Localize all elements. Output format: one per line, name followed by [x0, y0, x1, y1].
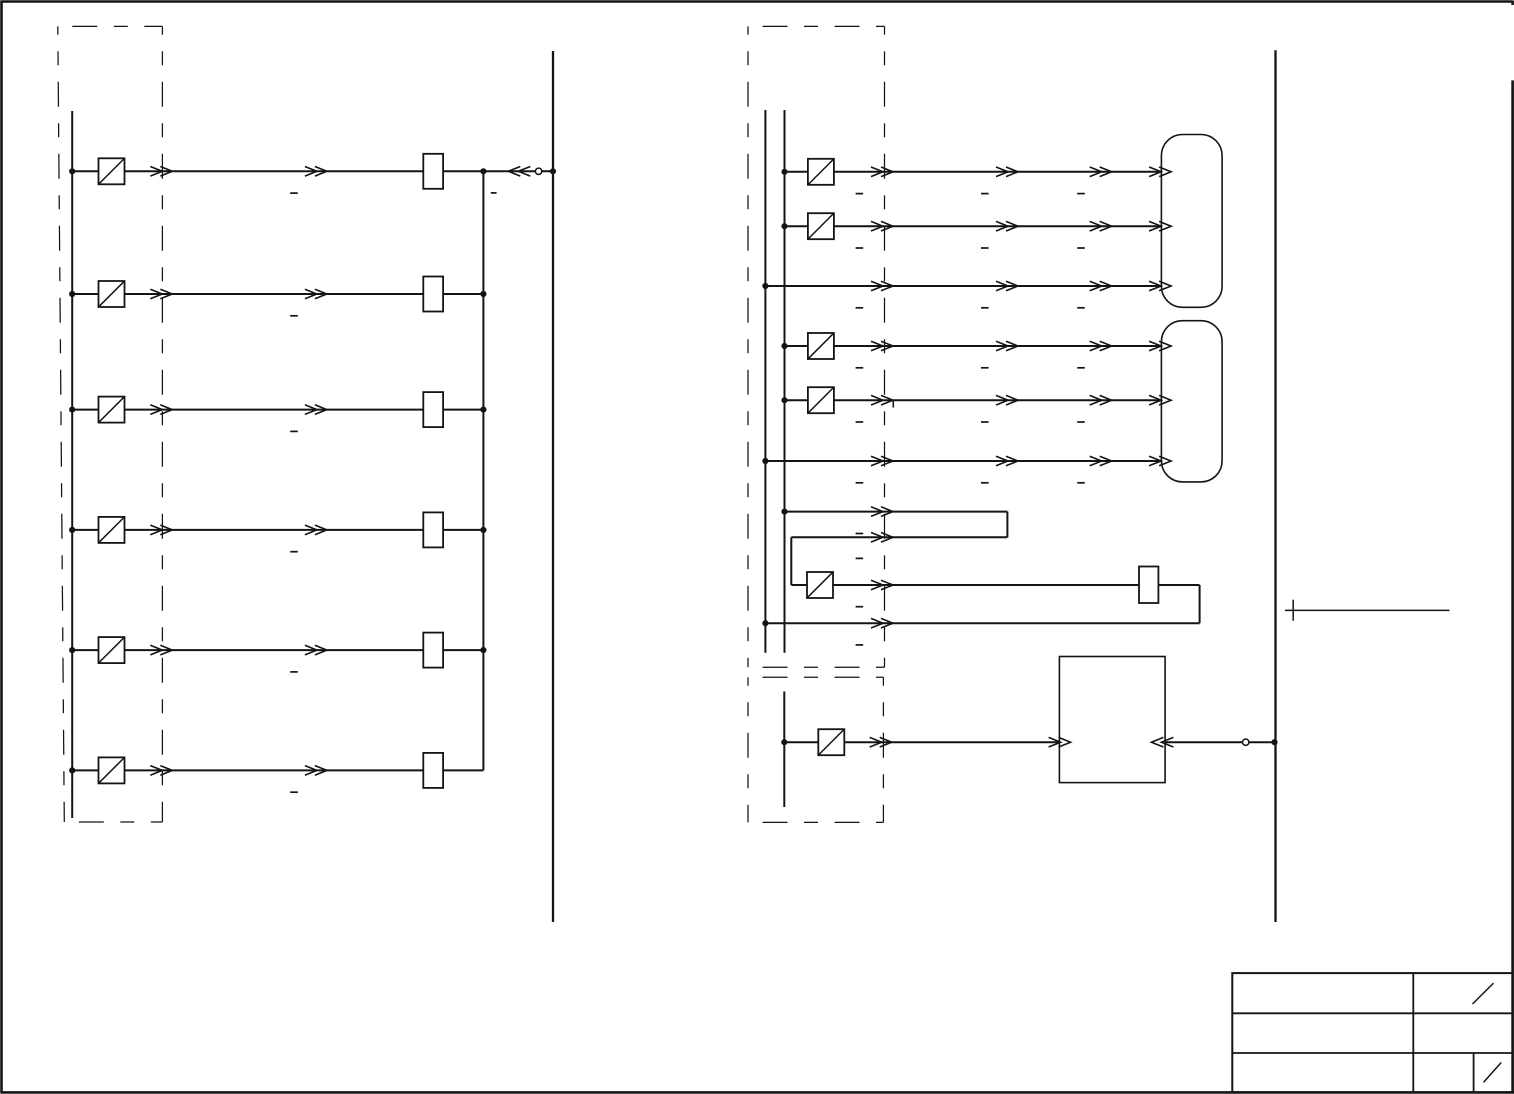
node: junction on right busbar: [1271, 739, 1277, 745]
wire: outer line to receiver block, feeder R6: [765, 460, 1161, 462]
cable label dash, feeder R4 at x=985: [981, 367, 989, 369]
cable label dash near left busbar: [491, 192, 497, 194]
cable arrow marks on feeder R4 (set 2): [996, 341, 1018, 351]
node: feeder R1 tap junction on inner line: [781, 169, 787, 175]
cable label dash, feeder L4: [290, 551, 298, 553]
wire: relay K-L3 to collector link: [443, 409, 483, 411]
title block: row divider 1: [1232, 1012, 1512, 1014]
cable label dash, feeder R6 at x=1081: [1077, 482, 1085, 484]
node: feeder R6 tap junction on outer line: [762, 458, 768, 464]
cable arrow marks on feeder R6 (set 4): [1149, 456, 1171, 466]
node: feeder R5 tap junction on inner line: [781, 397, 787, 403]
cable arrow marks on feeder R5 (set 1): [871, 395, 893, 405]
cable label dash, feeder R3 at x=1081: [1077, 307, 1085, 309]
wire: relay K-L1 to collector link: [443, 170, 483, 172]
left cubicle dashed enclosure: left edge: [58, 26, 65, 822]
cable label dash, feeder L5: [290, 671, 298, 673]
cable label dash, feeder R1 at x=985: [981, 193, 989, 195]
cable arrow marks on feeder R6 (set 3): [1090, 456, 1112, 466]
cable label dash, feeder R4 at x=859: [856, 367, 864, 369]
title block: signature slash (bottom right cell): [1484, 1063, 1502, 1083]
node: feeder R2 tap junction on inner line: [781, 223, 787, 229]
terminal circle at left busbar: [535, 168, 541, 174]
relay coil K-L4: [423, 512, 443, 547]
title block: column divider: [1412, 973, 1414, 1092]
cable arrow marks after converter U-R7: [871, 580, 893, 590]
node: feeder L5 tap junction on left bus: [69, 647, 75, 653]
lower cubicle dashed enclosure: left edge: [747, 677, 749, 822]
cable arrow marks on feeder R2 (set 1): [871, 221, 893, 231]
cable arrow marks on feeder L3 (second): [305, 405, 327, 415]
wire: relay return run to outer line: [765, 622, 1199, 624]
polarity tick on reference tap line: [1292, 600, 1294, 621]
wire: outer line to receiver block, feeder R3: [765, 285, 1161, 287]
drawing frame: right border: [1511, 80, 1514, 1092]
drawing frame: top border: [1, 0, 1513, 3]
stub mark below feeder R5 wire: [892, 400, 894, 407]
wire: converter U-R1 to receiver block: [834, 171, 1162, 173]
converter/isolator U-R1 (square with diagonal): [808, 159, 834, 185]
cable arrow marks on feeder R3 (set 2): [996, 281, 1018, 291]
converter/isolator U-R4 (square with diagonal): [808, 333, 834, 359]
wire: left bus to converter U-L5: [72, 649, 98, 651]
relay coil K-R7: [1139, 567, 1158, 604]
wire: converter U-L1 to relay K-L1: [125, 170, 424, 172]
arrow marks at control unit right port: [1151, 737, 1173, 747]
cable label dash, feeder R6 at x=985: [981, 482, 989, 484]
wire: relay K-R7 to right drop: [1158, 584, 1199, 586]
wire: feeder R7 left drop to converter: [790, 537, 792, 585]
cable arrow marks on feeder R3 (set 1): [871, 281, 893, 291]
wire: inner line to converter U-R4: [785, 345, 808, 347]
node: feeder L6 tap junction on left bus: [69, 767, 75, 773]
cable label dash, feeder R2 at x=859: [856, 247, 864, 249]
cable arrow marks on feeder L3 (first): [150, 405, 172, 415]
left DC feeder bus (vertical): [71, 111, 73, 818]
wire: vertical collector link (left half): [482, 171, 484, 770]
drawing frame: left border: [0, 1, 3, 1094]
node: feeder L4 tap junction on left bus: [69, 527, 75, 533]
cable label dash, feeder L3: [290, 430, 298, 432]
cable arrow marks on feeder R7: [871, 507, 893, 517]
cable label dash, feeder R2 at x=1081: [1077, 247, 1085, 249]
converter/isolator U-L1 (square with diagonal): [99, 158, 125, 184]
terminal circle on control unit supply: [1243, 739, 1249, 745]
wire: feeder R7 return run: [791, 536, 1007, 538]
cable arrow marks on feeder R2 (set 3): [1090, 221, 1112, 231]
cable arrow marks on feeder R1 (set 4): [1149, 167, 1171, 177]
wire: left bus to converter U-L1: [72, 170, 98, 172]
cable arrow marks on feeder R4 (set 4): [1149, 341, 1171, 351]
cable label dash, feeder R4 at x=1081: [1077, 367, 1085, 369]
cable arrow marks on feeder L2 (first): [150, 289, 172, 299]
wire: right drop of relay return: [1199, 585, 1201, 623]
node: feeder R4 tap junction on inner line: [781, 343, 787, 349]
reference tap line right of busbar: [1285, 609, 1450, 611]
cable arrow marks on feeder R2 (set 4): [1149, 221, 1171, 231]
cable label dash, feeder L2: [290, 315, 298, 317]
arrow marks entering control unit: [1049, 737, 1071, 747]
converter/isolator U-L6 (square with diagonal): [99, 757, 125, 783]
right cubicle dashed enclosure: right edge: [884, 26, 886, 667]
wire: inner line to converter U-R5: [785, 399, 808, 401]
right inner feeder line (vertical): [784, 110, 786, 653]
converter/isolator U-R5 (square with diagonal): [808, 387, 834, 413]
relay coil K-L5: [423, 633, 443, 668]
relay coil K-L3: [423, 392, 443, 427]
node: junction on left busbar: [550, 168, 556, 174]
converter/isolator U-R8 (square with diagonal): [818, 729, 844, 755]
wire: lower stub to converter U-R8: [784, 741, 818, 743]
cable label dash, feeder R7: [856, 533, 864, 535]
cable arrow marks on feeder R1 (set 3): [1090, 167, 1112, 177]
lower cubicle dashed enclosure: top edge: [748, 676, 883, 678]
wire: converter U-L6 to relay K-L6: [125, 769, 424, 771]
cable label dash after converter U-R7: [856, 606, 864, 608]
wire: converter U-L2 to relay K-L2: [125, 293, 424, 295]
wire: converter U-R8 to control unit: [844, 741, 1059, 743]
wire: collector link to left busbar (row L1): [483, 170, 553, 172]
right cubicle dashed enclosure: top edge: [748, 25, 885, 27]
receive arrow marks at left busbar: [508, 167, 530, 177]
receiver block B (rounded rectangle): [1161, 321, 1222, 482]
cable arrow marks on feeder R2 (set 2): [996, 221, 1018, 231]
wire: relay K-L6 to collector link: [443, 769, 483, 771]
title block: small cell divider: [1473, 1053, 1475, 1092]
wire: relay K-L2 to collector link: [443, 293, 483, 295]
cable arrow marks on feeder L1 (second): [305, 167, 327, 177]
lower cubicle feeder stub (vertical): [783, 692, 785, 808]
converter/isolator U-L3 (square with diagonal): [99, 397, 125, 423]
cable arrow marks on feeder R5 (set 2): [996, 395, 1018, 405]
cable arrow marks on feeder L2 (second): [305, 289, 327, 299]
cable arrow marks on feeder R3 (set 4): [1149, 281, 1171, 291]
wire: relay K-L4 to collector link: [443, 529, 483, 531]
cable label dash on relay return run: [856, 644, 864, 646]
node: collector link junction J-L1: [480, 168, 486, 174]
cable arrow marks on feeder R6 (set 2): [996, 456, 1018, 466]
wire: drop corner to converter U-R7: [791, 584, 807, 586]
wire: feeder R7 hairpin right drop: [1006, 512, 1008, 538]
wire: inner line to converter U-R1: [785, 171, 808, 173]
right cubicle dashed enclosure: bottom edge: [748, 666, 885, 668]
title block: outline: [1232, 973, 1512, 1092]
cable label dash, feeder L6: [290, 791, 298, 793]
cable arrow marks on feeder R1 (set 1): [871, 167, 893, 177]
node: relay return junction on outer line: [762, 620, 768, 626]
wire: left bus to converter U-L4: [72, 529, 98, 531]
title block: row divider 2: [1232, 1052, 1512, 1054]
converter/isolator U-R2 (square with diagonal): [808, 213, 834, 239]
wire: left bus to converter U-L3: [72, 409, 98, 411]
relay coil K-L2: [423, 277, 443, 312]
node: collector link junction J-L5: [480, 647, 486, 653]
cable arrow marks on feeder R1 (set 2): [996, 167, 1018, 177]
title block: signature slash (top right cell): [1473, 983, 1494, 1004]
cable arrow marks on feeder R5 (set 4): [1149, 395, 1171, 405]
left cubicle dashed enclosure: top edge: [58, 25, 163, 27]
left cubicle dashed enclosure: right edge: [161, 26, 163, 822]
cable label dash, feeder L1: [290, 192, 298, 194]
converter/isolator U-L4 (square with diagonal): [99, 517, 125, 543]
cable label dash, feeder R6 at x=859: [856, 482, 864, 484]
relay coil K-L1: [423, 154, 443, 189]
cable label dash, feeder R1 at x=859: [856, 193, 864, 195]
control unit block (rectangle): [1059, 657, 1165, 783]
wire: converter U-R7 to relay K-R7: [833, 584, 1139, 586]
cable arrow marks on feeder R3 (set 3): [1090, 281, 1112, 291]
cable arrow marks on feeder L1 (first): [150, 167, 172, 177]
right outer feeder line (vertical): [764, 110, 766, 653]
cable label dash, feeder R2 at x=985: [981, 247, 989, 249]
wire: converter U-R5 to receiver block: [834, 399, 1162, 401]
cable arrow marks on feeder L5 (second): [305, 645, 327, 655]
node: tap junction in lower cubicle: [781, 739, 787, 745]
left cubicle dashed enclosure: bottom edge: [64, 821, 162, 823]
right station busbar (vertical): [1274, 50, 1276, 922]
converter/isolator U-L5 (square with diagonal): [99, 637, 125, 663]
lower cubicle dashed enclosure: bottom edge: [748, 821, 883, 823]
cable arrow marks on feeder L4 (second): [305, 525, 327, 535]
converter/isolator U-L2 (square with diagonal): [99, 281, 125, 307]
node: feeder L1 tap junction on left bus: [69, 168, 75, 174]
cable label dash, feeder R5 at x=985: [981, 421, 989, 423]
cable arrow marks on relay return run: [871, 618, 893, 628]
relay coil K-L6: [423, 753, 443, 788]
cable label dash, feeder R3 at x=985: [981, 307, 989, 309]
drawing frame: bottom border: [1, 1091, 1514, 1094]
converter/isolator U-R7 (square with diagonal): [807, 572, 833, 598]
wire: feeder R7 outgoing run: [785, 511, 1008, 513]
cable arrow marks after converter U-R8: [870, 737, 892, 747]
cable label dash, feeder R5 at x=859: [856, 421, 864, 423]
cable arrow marks on feeder R6 (set 1): [871, 456, 893, 466]
lower cubicle dashed enclosure: right edge: [882, 677, 884, 822]
cable label dash, feeder R1 at x=1081: [1077, 193, 1085, 195]
cable label dash, feeder R3 at x=859: [856, 307, 864, 309]
wire: converter U-L5 to relay K-L5: [125, 649, 424, 651]
cable arrow marks on feeder L6 (second): [305, 766, 327, 776]
cable arrow marks on feeder L5 (first): [150, 645, 172, 655]
node: collector link junction J-L4: [480, 527, 486, 533]
wire: left bus to converter U-L2: [72, 293, 98, 295]
receiver block A (rounded rectangle): [1161, 135, 1222, 308]
node: collector link junction J-L3: [480, 407, 486, 413]
node: feeder R3 tap junction on outer line: [762, 283, 768, 289]
wire: inner line to converter U-R2: [785, 225, 808, 227]
wire: converter U-L3 to relay K-L3: [125, 409, 424, 411]
right cubicle dashed enclosure: left edge: [747, 26, 749, 667]
cable arrow marks on feeder R4 (set 3): [1090, 341, 1112, 351]
wire: converter U-R2 to receiver block: [834, 225, 1162, 227]
drawing frame: right border upper stub: [1511, 1, 1514, 6]
node: feeder L3 tap junction on left bus: [69, 407, 75, 413]
wire: converter U-R4 to receiver block: [834, 345, 1162, 347]
wire: control unit to right busbar: [1165, 741, 1275, 743]
cable label dash, feeder R7 return: [856, 557, 864, 559]
node: collector link junction J-L2: [480, 291, 486, 297]
cable arrow marks on feeder R7 return: [871, 533, 893, 543]
cable label dash, feeder R5 at x=1081: [1077, 421, 1085, 423]
wire: relay K-L5 to collector link: [443, 649, 483, 651]
cable arrow marks on feeder R4 (set 1): [871, 341, 893, 351]
node: feeder R7 tap junction on inner line: [781, 509, 787, 515]
left station busbar (vertical): [552, 51, 554, 922]
cable arrow marks on feeder L4 (first): [150, 525, 172, 535]
cable arrow marks on feeder L6 (first): [150, 766, 172, 776]
cable arrow marks on feeder R5 (set 3): [1090, 395, 1112, 405]
wire: left bus to converter U-L6: [72, 769, 98, 771]
wire: converter U-L4 to relay K-L4: [125, 529, 424, 531]
node: feeder L2 tap junction on left bus: [69, 291, 75, 297]
